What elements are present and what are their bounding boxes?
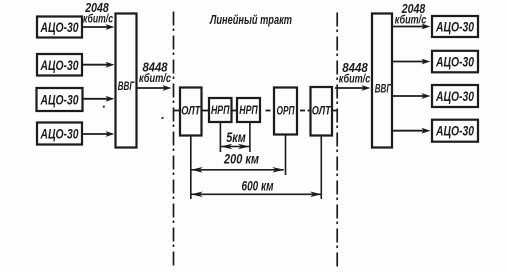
- svg-text:АЦО-30: АЦО-30: [435, 20, 474, 36]
- wire NRP1 to NRP2: [232, 110, 238, 112]
- wire VVG left to line: [137, 85, 172, 91]
- boundary dash-dot line right: [336, 13, 338, 269]
- svg-text:кбит/с: кбит/с: [83, 14, 113, 26]
- block ACO-30 L1: [37, 17, 82, 38]
- block VVG right: [372, 14, 392, 148]
- dimension 600 km: [191, 179, 322, 198]
- svg-text:АЦО-30: АЦО-30: [40, 127, 79, 143]
- label 2048 kbit/s left: [83, 0, 113, 26]
- block ORP: [274, 88, 297, 135]
- block ACO-30 L3: [37, 88, 83, 111]
- block OLT left: [180, 88, 202, 136]
- block NRP 1: [209, 98, 232, 122]
- wire OLT left to NRP1: [202, 110, 210, 112]
- boundary dash-dot line left: [173, 12, 175, 268]
- svg-text:АЦО-30: АЦО-30: [435, 124, 474, 140]
- block ACO-30 R3: [432, 85, 478, 107]
- block ACO-30 R2: [432, 51, 478, 73]
- wire ORP to OLT right dashed: [300, 110, 305, 112]
- extension line below NRP1: [219, 122, 221, 152]
- block ACO-30 L4: [37, 123, 82, 145]
- wire ACO L1 to VVG: [82, 24, 115, 30]
- svg-text:ОРП: ОРП: [277, 106, 296, 118]
- svg-text:кбит/с: кбит/с: [395, 15, 427, 27]
- dimension 5 km: [220, 129, 250, 149]
- wire ACO L2 to VVG: [82, 62, 115, 68]
- svg-text:ОЛТ: ОЛТ: [312, 106, 332, 118]
- extension line below NRP2: [249, 122, 251, 152]
- svg-text:АЦО-30: АЦО-30: [40, 20, 79, 36]
- scan speck near VVG left: [103, 106, 105, 108]
- svg-text:АЦО-30: АЦО-30: [40, 93, 79, 109]
- block NRP 2: [237, 98, 260, 122]
- wire line to OLT left: [173, 110, 180, 112]
- wire VVG to ACO R4: [393, 128, 431, 134]
- wire VVG to ACO R1: [393, 24, 431, 30]
- svg-text:НРП: НРП: [239, 105, 258, 117]
- block ACO-30 R4: [432, 120, 478, 142]
- wire NRP2 to ORP dashed: [266, 110, 271, 112]
- wire ACO L4 to VVG: [82, 131, 115, 137]
- extension line below ORP: [285, 135, 287, 176]
- svg-text:НРП: НРП: [211, 105, 230, 117]
- block ACO-30 R1: [432, 16, 478, 37]
- svg-text:АЦО-30: АЦО-30: [435, 89, 474, 105]
- svg-text:АЦО-30: АЦО-30: [435, 55, 474, 71]
- svg-text:200 км: 200 км: [223, 152, 259, 167]
- block ACO-30 L2: [37, 54, 82, 76]
- svg-text:Линейный тракт: Линейный тракт: [209, 12, 292, 27]
- block OLT right: [311, 87, 333, 136]
- wire line to VVG right: [335, 85, 371, 91]
- wire VVG to ACO R2: [393, 59, 431, 65]
- svg-text:АЦО-30: АЦО-30: [40, 58, 79, 74]
- scan speck near left boundary line: [161, 117, 164, 120]
- label 8448 kbit/s left: [139, 60, 171, 86]
- svg-text:кбит/с: кбит/с: [139, 73, 171, 85]
- svg-text:ВВГ: ВВГ: [375, 82, 392, 96]
- svg-text:600 км: 600 км: [242, 179, 274, 194]
- dimension 200 km: [191, 152, 284, 173]
- label 8448 kbit/s right: [339, 60, 371, 86]
- svg-text:ОЛТ: ОЛТ: [181, 106, 201, 118]
- wire ACO L3 to VVG: [82, 96, 115, 102]
- block VVG left: [116, 14, 137, 148]
- extension line below OLT right: [320, 136, 322, 200]
- svg-text:5км: 5км: [226, 129, 246, 145]
- svg-text:ВВГ: ВВГ: [118, 79, 135, 93]
- wire VVG to ACO R3: [393, 93, 431, 99]
- wire OLT right to line: [332, 110, 338, 112]
- svg-text:кбит/с: кбит/с: [339, 74, 371, 86]
- label 2048 kbit/s right: [395, 1, 427, 27]
- extension line below OLT left: [190, 136, 192, 200]
